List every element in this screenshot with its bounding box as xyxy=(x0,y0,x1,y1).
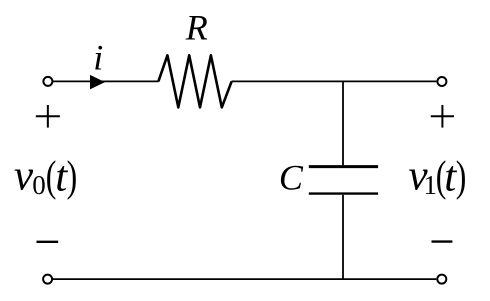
svg-text:): ) xyxy=(456,153,467,201)
svg-text:R: R xyxy=(185,8,208,48)
svg-text:0: 0 xyxy=(32,170,46,200)
svg-text:1: 1 xyxy=(424,170,438,200)
svg-text:i: i xyxy=(93,38,103,78)
svg-text:C: C xyxy=(279,158,304,198)
svg-text:): ) xyxy=(67,153,78,201)
svg-text:v: v xyxy=(14,153,34,200)
